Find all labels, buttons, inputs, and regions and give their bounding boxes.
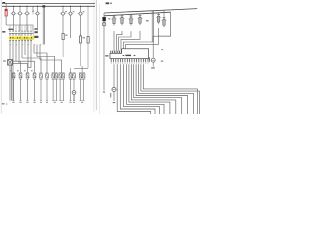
connector strip edge bbox=[9, 32, 34, 34]
right page left border bbox=[98, 4, 100, 114]
fuse F4 bbox=[24, 6, 30, 32]
fuse F7 bbox=[68, 6, 75, 38]
terminal label 31 bbox=[34, 28, 38, 38]
wire fan to bottom right bbox=[127, 64, 200, 114]
connector stub T1 bbox=[32, 6, 34, 14]
wire bend net bbox=[12, 53, 61, 73]
ECU top pins bbox=[111, 51, 122, 54]
highlight tail (yellow) bbox=[31, 37, 34, 39]
label right of sensor bbox=[161, 49, 163, 62]
fuse F3 bbox=[17, 6, 23, 32]
fuse SB4 bbox=[138, 14, 143, 25]
wire down B bbox=[120, 64, 155, 114]
wire fan into ECU bbox=[114, 31, 159, 51]
sensor G2 (circle) bbox=[72, 91, 76, 101]
fuse S14 bbox=[79, 33, 85, 66]
fuse F5 bbox=[35, 6, 41, 31]
ECU pin labels bbox=[111, 62, 149, 65]
fuse F6 bbox=[60, 6, 67, 34]
wire SB5 down bbox=[108, 18, 158, 36]
fuse SB3 bbox=[129, 14, 134, 25]
wire to sensor Z19 bbox=[153, 36, 170, 58]
terminal 30 (black square) bbox=[103, 13, 106, 93]
fuse F2 bbox=[11, 6, 17, 32]
wire K (x88) bbox=[87, 6, 88, 69]
component V2 bbox=[46, 73, 49, 103]
wire colour labels row 2 bbox=[10, 43, 41, 46]
wire comb below band bbox=[10, 42, 40, 101]
component V3 bbox=[69, 73, 72, 103]
wires to components right bbox=[71, 66, 89, 73]
sensor Z19 (circle) bbox=[150, 57, 156, 68]
bottom text left margin bbox=[2, 31, 8, 105]
fuse under terminal bbox=[102, 23, 105, 26]
injector N30 bbox=[10, 70, 15, 103]
fuse SB6 bbox=[162, 10, 167, 27]
fuse F8 bbox=[78, 6, 85, 36]
page label top-left bbox=[2, 2, 5, 4]
wires into connector strip bbox=[10, 25, 31, 31]
fuse SB1 bbox=[112, 15, 117, 25]
injector N31 bbox=[17, 70, 22, 103]
bus 30 right page bbox=[104, 9, 197, 13]
label mid row bbox=[146, 20, 149, 21]
page mark top right-page bbox=[106, 2, 112, 4]
bus feed corner bbox=[158, 12, 171, 36]
pin number row bbox=[8, 29, 31, 32]
fuse S13 bbox=[62, 33, 68, 57]
junction Z1 (hatched box) bbox=[3, 60, 12, 101]
component V1 bbox=[40, 73, 43, 103]
wire down C bbox=[123, 64, 159, 114]
relay box outline bbox=[21, 32, 34, 39]
component V4 bbox=[73, 73, 76, 103]
left page left border bbox=[0, 0, 2, 114]
highlight band (yellow) bbox=[9, 37, 34, 40]
bus 15 left page bbox=[2, 5, 95, 7]
component pair W2 bbox=[59, 73, 65, 103]
ECU bottom pins bbox=[111, 59, 148, 62]
injector N33 bbox=[31, 70, 36, 103]
fuse S15 bbox=[87, 37, 89, 44]
connector ticks bbox=[10, 33, 31, 35]
sensor G39 (circle) bbox=[110, 64, 116, 103]
wire supply double bbox=[42, 5, 45, 44]
fuse S1 (red, highlighted) bbox=[5, 3, 7, 25]
component pair W1 bbox=[52, 73, 58, 103]
left page right border bbox=[94, 0, 96, 112]
injector N32 bbox=[24, 70, 29, 103]
component pair W3 bbox=[79, 73, 85, 103]
bus 30 left page bbox=[2, 2, 95, 4]
fuse SB2 bbox=[120, 15, 125, 26]
ECU J361 box bbox=[105, 49, 148, 59]
wire double drop bbox=[152, 11, 153, 42]
wire down A bbox=[117, 64, 151, 114]
bus 15 right page bbox=[104, 12, 171, 16]
wire collector bbox=[6, 25, 33, 31]
fuse SB5 bbox=[156, 12, 161, 24]
wire labels row bbox=[9, 40, 31, 42]
